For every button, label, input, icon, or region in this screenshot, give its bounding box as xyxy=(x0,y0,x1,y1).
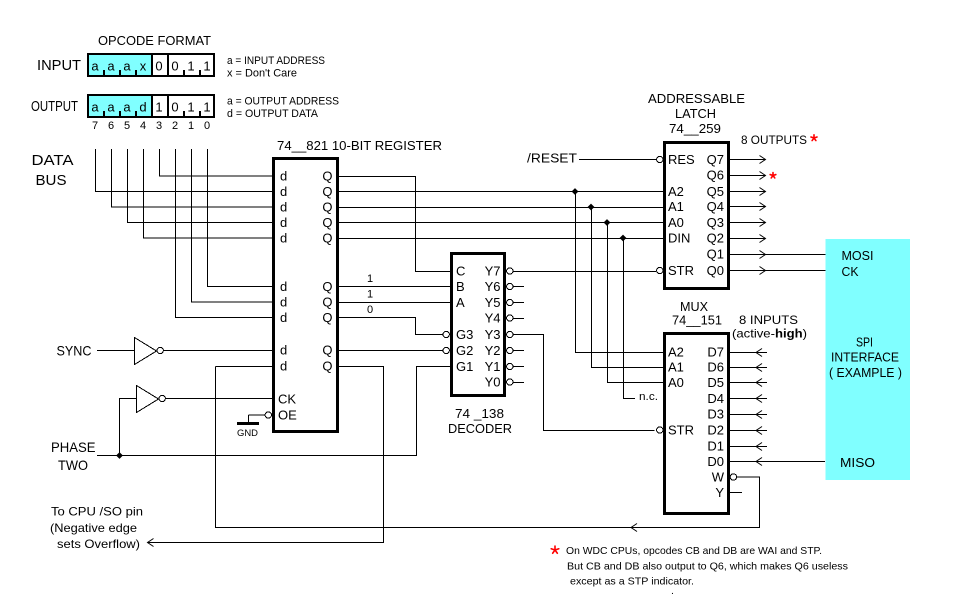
svg-text:DECODER: DECODER xyxy=(448,421,512,436)
svg-text:Y2: Y2 xyxy=(485,343,501,358)
wire register Q1 to latch A2 xyxy=(339,191,663,193)
arrowhead to CPU /SO pin xyxy=(148,539,154,547)
decoder Y3 bubble xyxy=(507,331,513,337)
svg-text:4: 4 xyxy=(140,120,146,132)
arrowhead mux D7 xyxy=(756,349,762,357)
svg-text:d: d xyxy=(139,100,146,115)
svg-text:STR: STR xyxy=(668,263,694,278)
arrowhead mux D4 xyxy=(756,395,762,403)
wire DIN net down to n.c. stub xyxy=(624,238,636,399)
junction dot DIN net xyxy=(620,235,627,242)
svg-text:SPI: SPI xyxy=(856,335,873,350)
stub mux D7 xyxy=(730,352,767,354)
opcode byte box INPUT row xyxy=(87,53,215,77)
decoder Y6 bubble xyxy=(507,283,513,289)
wire ground drop xyxy=(248,415,250,422)
red asterisk 8 OUTPUTS xyxy=(811,135,817,141)
svg-text:Y3: Y3 xyxy=(485,327,501,342)
wire inverter U2 to register d xyxy=(163,350,272,352)
arrowhead latch Q2 xyxy=(760,235,766,243)
arrowhead latch Q1 xyxy=(760,251,766,259)
wire register Q0 to decoder C xyxy=(339,177,450,272)
wire PHASE TWO to decoder G1 xyxy=(97,367,450,456)
junction dot A2 net xyxy=(572,188,579,195)
svg-text:D6: D6 xyxy=(707,360,724,375)
junction dot A1 net xyxy=(588,204,595,211)
svg-text:1: 1 xyxy=(187,59,194,74)
wire A2 net down to MUX A2 xyxy=(576,192,664,353)
svg-text:Q: Q xyxy=(322,200,332,215)
svg-text:Q: Q xyxy=(322,184,332,199)
svg-text:0: 0 xyxy=(171,100,178,115)
red asterisk Q6 xyxy=(770,173,776,178)
wire register Q6 to decoder A xyxy=(339,302,450,304)
svg-text:Q: Q xyxy=(322,310,332,325)
svg-text:74__259: 74__259 xyxy=(669,121,721,136)
svg-text:Y1: Y1 xyxy=(485,359,501,374)
decoder Y5 bubble xyxy=(507,299,513,305)
decoder Y0 bubble xyxy=(507,379,513,385)
svg-text:PHASE: PHASE xyxy=(51,439,96,455)
ground symbol xyxy=(237,422,259,425)
decoder G2 bubble xyxy=(443,347,449,353)
svg-text:7: 7 xyxy=(92,120,98,132)
svg-text:G2: G2 xyxy=(456,343,473,358)
svg-text:GND: GND xyxy=(237,428,258,439)
svg-text:DATA: DATA xyxy=(32,152,74,169)
svg-text:1: 1 xyxy=(367,273,373,285)
stub decoder Y4 xyxy=(513,318,524,320)
wire inverter U3 to register CK xyxy=(165,398,272,400)
svg-text:Q0: Q0 xyxy=(707,263,724,278)
svg-text:d: d xyxy=(280,215,287,230)
svg-text:RES: RES xyxy=(668,152,695,167)
stub mux D3 xyxy=(730,414,767,416)
wire latch Q0 to SPI xyxy=(730,270,830,272)
arrowhead latch Q7 xyxy=(760,156,766,164)
svg-text:(Negative edge: (Negative edge xyxy=(50,521,137,535)
stub decoder Y0 xyxy=(513,382,524,384)
svg-text:a = INPUT ADDRESS: a = INPUT ADDRESS xyxy=(227,55,325,67)
wire register Q7 to decoder G3 xyxy=(339,318,443,335)
wire decoder Y3 to MUX STR xyxy=(513,335,654,431)
latch U5 74__259 box xyxy=(663,141,730,290)
svg-text:Q5: Q5 xyxy=(707,184,724,199)
wire register Q8 to decoder G2 xyxy=(339,350,443,352)
wire data bus bit2 to register d xyxy=(176,149,273,318)
arrowhead latch Q3 xyxy=(760,219,766,227)
wire data bus bit6 to register d xyxy=(112,149,273,207)
svg-text:Q: Q xyxy=(322,343,332,358)
arrowhead mux D2 xyxy=(756,427,762,435)
mux W bubble xyxy=(730,474,736,480)
arrowhead latch Q6 xyxy=(760,172,766,180)
svg-text:sets Overflow): sets Overflow) xyxy=(57,537,140,551)
svg-text:SYNC: SYNC xyxy=(57,343,92,359)
svg-text:d: d xyxy=(280,343,287,358)
svg-text:/RESET: /RESET xyxy=(527,151,577,166)
wire /RESET to latch RES xyxy=(579,159,656,161)
wire register Q9 feedback to CPU /SO xyxy=(148,367,384,543)
svg-text:Q: Q xyxy=(322,359,332,374)
svg-text:Q6: Q6 xyxy=(707,168,724,183)
wire latch Q1 to SPI xyxy=(730,254,830,256)
svg-text:A1: A1 xyxy=(668,199,684,214)
arrowhead latch Q0 xyxy=(760,267,766,275)
mux STR bubble xyxy=(657,427,663,433)
wire PHASE TWO to inverter U3 input xyxy=(120,399,137,456)
svg-text:On WDC CPUs, opcodes CB and DB: On WDC CPUs, opcodes CB and DB are WAI a… xyxy=(566,545,822,557)
decoder Y4 bubble xyxy=(507,315,513,321)
svg-text:STR: STR xyxy=(668,423,694,438)
svg-text:CK: CK xyxy=(842,264,859,279)
inverter U3 (PHASE TWO) xyxy=(137,386,159,413)
svg-text:A2: A2 xyxy=(668,345,684,360)
svg-text:d = OUTPUT DATA: d = OUTPUT DATA xyxy=(227,108,319,120)
svg-text:a: a xyxy=(123,100,131,115)
svg-text:3: 3 xyxy=(156,120,162,132)
svg-text:BUS: BUS xyxy=(36,172,67,189)
stub decoder Y1 xyxy=(513,366,524,368)
svg-text:W: W xyxy=(712,470,725,485)
svg-text:A0: A0 xyxy=(668,215,684,230)
svg-text:0: 0 xyxy=(171,59,178,74)
svg-text:( EXAMPLE ): ( EXAMPLE ) xyxy=(829,365,902,380)
svg-text:Y0: Y0 xyxy=(485,375,501,390)
opcode byte box OUTPUT row xyxy=(87,94,215,118)
svg-text:d: d xyxy=(280,184,287,199)
svg-text:Q: Q xyxy=(322,295,332,310)
inverter U2 output bubble xyxy=(157,347,163,353)
arrowhead latch Q5 xyxy=(760,188,766,196)
svg-text:Q: Q xyxy=(322,169,332,184)
svg-text:a: a xyxy=(123,59,131,74)
svg-text:Q: Q xyxy=(322,279,332,294)
svg-text:OUTPUT: OUTPUT xyxy=(31,99,78,115)
decoder U4 74__138 box xyxy=(450,252,506,397)
stub mux D2 xyxy=(730,430,767,432)
arrowhead mux D0 xyxy=(756,458,762,466)
wire register Q4 to latch DIN xyxy=(339,238,663,240)
stub mux D6 xyxy=(730,367,767,369)
wire OE to ground xyxy=(249,414,266,416)
svg-text:1: 1 xyxy=(155,100,162,115)
svg-text:except as a STP indicator.: except as a STP indicator. xyxy=(570,576,694,588)
svg-text:OPCODE FORMAT: OPCODE FORMAT xyxy=(98,33,211,48)
svg-text:ADDRESSABLE: ADDRESSABLE xyxy=(648,91,745,106)
stub mux D4 xyxy=(730,398,767,400)
svg-text:Y5: Y5 xyxy=(485,295,501,310)
wire latch Q2 output xyxy=(730,238,766,240)
svg-text:LATCH: LATCH xyxy=(675,106,716,121)
wire data bus bit4 to register d xyxy=(144,149,273,238)
svg-text:C: C xyxy=(456,264,465,279)
svg-text:0: 0 xyxy=(204,120,210,132)
svg-text:D2: D2 xyxy=(707,423,724,438)
svg-text:74__151: 74__151 xyxy=(672,313,722,328)
arrowhead mux D5 xyxy=(756,379,762,387)
decoder Y7 bubble xyxy=(507,268,513,274)
svg-text:INTERFACE: INTERFACE xyxy=(831,350,899,365)
svg-text:0: 0 xyxy=(367,304,373,316)
wire A0 net down to MUX A0 xyxy=(608,223,664,383)
svg-text:A: A xyxy=(456,295,465,310)
svg-text:G1: G1 xyxy=(456,359,473,374)
svg-text:CK: CK xyxy=(278,392,296,407)
svg-text:1: 1 xyxy=(203,59,210,74)
svg-text:A2: A2 xyxy=(668,184,684,199)
svg-text:D1: D1 xyxy=(707,439,724,454)
wire data bus bit3 to register d xyxy=(160,149,273,176)
svg-text:d: d xyxy=(280,359,287,374)
svg-text:74__821 10-BIT REGISTER: 74__821 10-BIT REGISTER xyxy=(277,138,442,153)
svg-text:a: a xyxy=(107,100,115,115)
red asterisk footnote xyxy=(551,546,559,553)
wire latch Q6 output xyxy=(730,175,766,177)
latch STR bubble xyxy=(657,267,663,273)
wire latch Q7 output xyxy=(730,159,766,161)
wire data bus bit1 to register d xyxy=(192,149,273,302)
wire register Q3 to latch A0 xyxy=(339,222,663,224)
svg-text:8 OUTPUTS: 8 OUTPUTS xyxy=(741,133,807,147)
svg-text:D3: D3 xyxy=(707,407,724,422)
svg-text:d: d xyxy=(280,169,287,184)
wire data bus bit0 to register d xyxy=(208,149,273,287)
wire decoder Y7 to latch STR xyxy=(513,271,656,273)
wire latch Q5 output xyxy=(730,191,766,193)
svg-text:74 _138: 74 _138 xyxy=(455,406,504,421)
stub mux D5 xyxy=(730,382,767,384)
svg-text:A1: A1 xyxy=(668,360,684,375)
svg-text:Q2: Q2 xyxy=(707,231,724,246)
wire MISO to MUX D0 xyxy=(730,461,825,463)
svg-text:Y4: Y4 xyxy=(485,311,501,326)
wire MUX W to register d feedback loop xyxy=(216,367,760,528)
decoder Y2 bubble xyxy=(507,347,513,353)
svg-text:(active-high): (active-high) xyxy=(732,327,807,341)
svg-text:a: a xyxy=(107,59,115,74)
svg-text:1: 1 xyxy=(367,289,373,301)
svg-text:a: a xyxy=(91,100,99,115)
stub mux D1 xyxy=(730,446,767,448)
svg-text:Q: Q xyxy=(322,215,332,230)
svg-text:Q4: Q4 xyxy=(707,199,724,214)
svg-text:D0: D0 xyxy=(707,454,724,469)
wire data bus bit7 to register d xyxy=(96,149,273,192)
svg-text:8 INPUTS: 8 INPUTS xyxy=(739,313,798,327)
inverter U2 (SYNC) xyxy=(135,338,157,365)
latch RES bubble xyxy=(657,156,663,162)
svg-text:d: d xyxy=(280,310,287,325)
wire A1 net down to MUX A1 xyxy=(592,207,664,368)
arrowhead latch Q4 xyxy=(760,203,766,211)
arrowhead on W feedback wire xyxy=(631,524,637,532)
svg-text:1: 1 xyxy=(203,100,210,115)
svg-text:0: 0 xyxy=(155,59,162,74)
wire latch Q3 output xyxy=(730,222,766,224)
svg-text:Y7: Y7 xyxy=(485,264,501,279)
junction dot PHASE TWO xyxy=(116,452,123,459)
svg-text:Y: Y xyxy=(715,485,724,500)
svg-text:Q: Q xyxy=(322,231,332,246)
junction dot A0 net xyxy=(604,219,611,226)
svg-text:TWO: TWO xyxy=(58,457,88,473)
svg-text:2: 2 xyxy=(172,120,178,132)
svg-text:But CB and DB also output to Q: But CB and DB also output to Q6, which m… xyxy=(567,561,848,573)
svg-text:Q1: Q1 xyxy=(707,247,724,262)
svg-text:OE: OE xyxy=(278,408,297,423)
wire register Q5 to decoder B xyxy=(339,286,450,288)
svg-text:d: d xyxy=(280,295,287,310)
inverter U3 output bubble xyxy=(159,395,165,401)
stub decoder Y2 xyxy=(513,350,524,352)
svg-text:MOSI: MOSI xyxy=(842,248,874,263)
svg-text:Q3: Q3 xyxy=(707,215,724,230)
stub mux Y xyxy=(730,492,742,494)
svg-text:D4: D4 xyxy=(707,391,724,406)
svg-text:d: d xyxy=(280,231,287,246)
svg-text:a: a xyxy=(91,59,99,74)
svg-text:Q7: Q7 xyxy=(707,152,724,167)
svg-text:.: . xyxy=(671,585,674,595)
SPI interface cyan box xyxy=(826,239,911,480)
wire latch Q4 output xyxy=(730,206,766,208)
svg-text:Y6: Y6 xyxy=(485,279,501,294)
svg-text:D5: D5 xyxy=(707,375,724,390)
wire data bus bit5 to register d xyxy=(128,149,273,223)
svg-text:a = OUTPUT ADDRESS: a = OUTPUT ADDRESS xyxy=(227,96,339,108)
arrowhead mux D1 xyxy=(756,443,762,451)
svg-text:A0: A0 xyxy=(668,375,684,390)
register OE bubble xyxy=(265,412,271,418)
svg-text:x = Don't Care: x = Don't Care xyxy=(227,68,297,80)
svg-text:6: 6 xyxy=(108,120,114,132)
mux U6 74__151 box xyxy=(663,332,730,515)
register U1 74__821 box xyxy=(272,157,339,433)
stub decoder Y6 xyxy=(513,286,524,288)
svg-text:x: x xyxy=(140,59,147,74)
svg-text:1: 1 xyxy=(187,100,194,115)
svg-text:B: B xyxy=(456,279,465,294)
svg-text:INPUT: INPUT xyxy=(37,58,81,74)
arrowhead mux D6 xyxy=(756,364,762,372)
svg-text:D7: D7 xyxy=(707,345,724,360)
svg-text:n.c.: n.c. xyxy=(639,391,658,403)
svg-text:1: 1 xyxy=(188,120,194,132)
svg-text:5: 5 xyxy=(124,120,130,132)
stub decoder Y5 xyxy=(513,302,524,304)
wire SYNC to inverter xyxy=(97,350,134,352)
decoder G3 bubble xyxy=(443,331,449,337)
svg-text:DIN: DIN xyxy=(668,231,690,246)
svg-text:To CPU /SO pin: To CPU /SO pin xyxy=(51,505,143,519)
wire W feedback to register d xyxy=(216,366,273,368)
arrowhead mux D3 xyxy=(756,411,762,419)
wire register Q2 to latch A1 xyxy=(339,207,663,209)
decoder Y1 bubble xyxy=(507,363,513,369)
svg-text:MISO: MISO xyxy=(840,455,875,470)
svg-text:d: d xyxy=(280,200,287,215)
svg-text:G3: G3 xyxy=(456,327,473,342)
svg-text:d: d xyxy=(280,279,287,294)
